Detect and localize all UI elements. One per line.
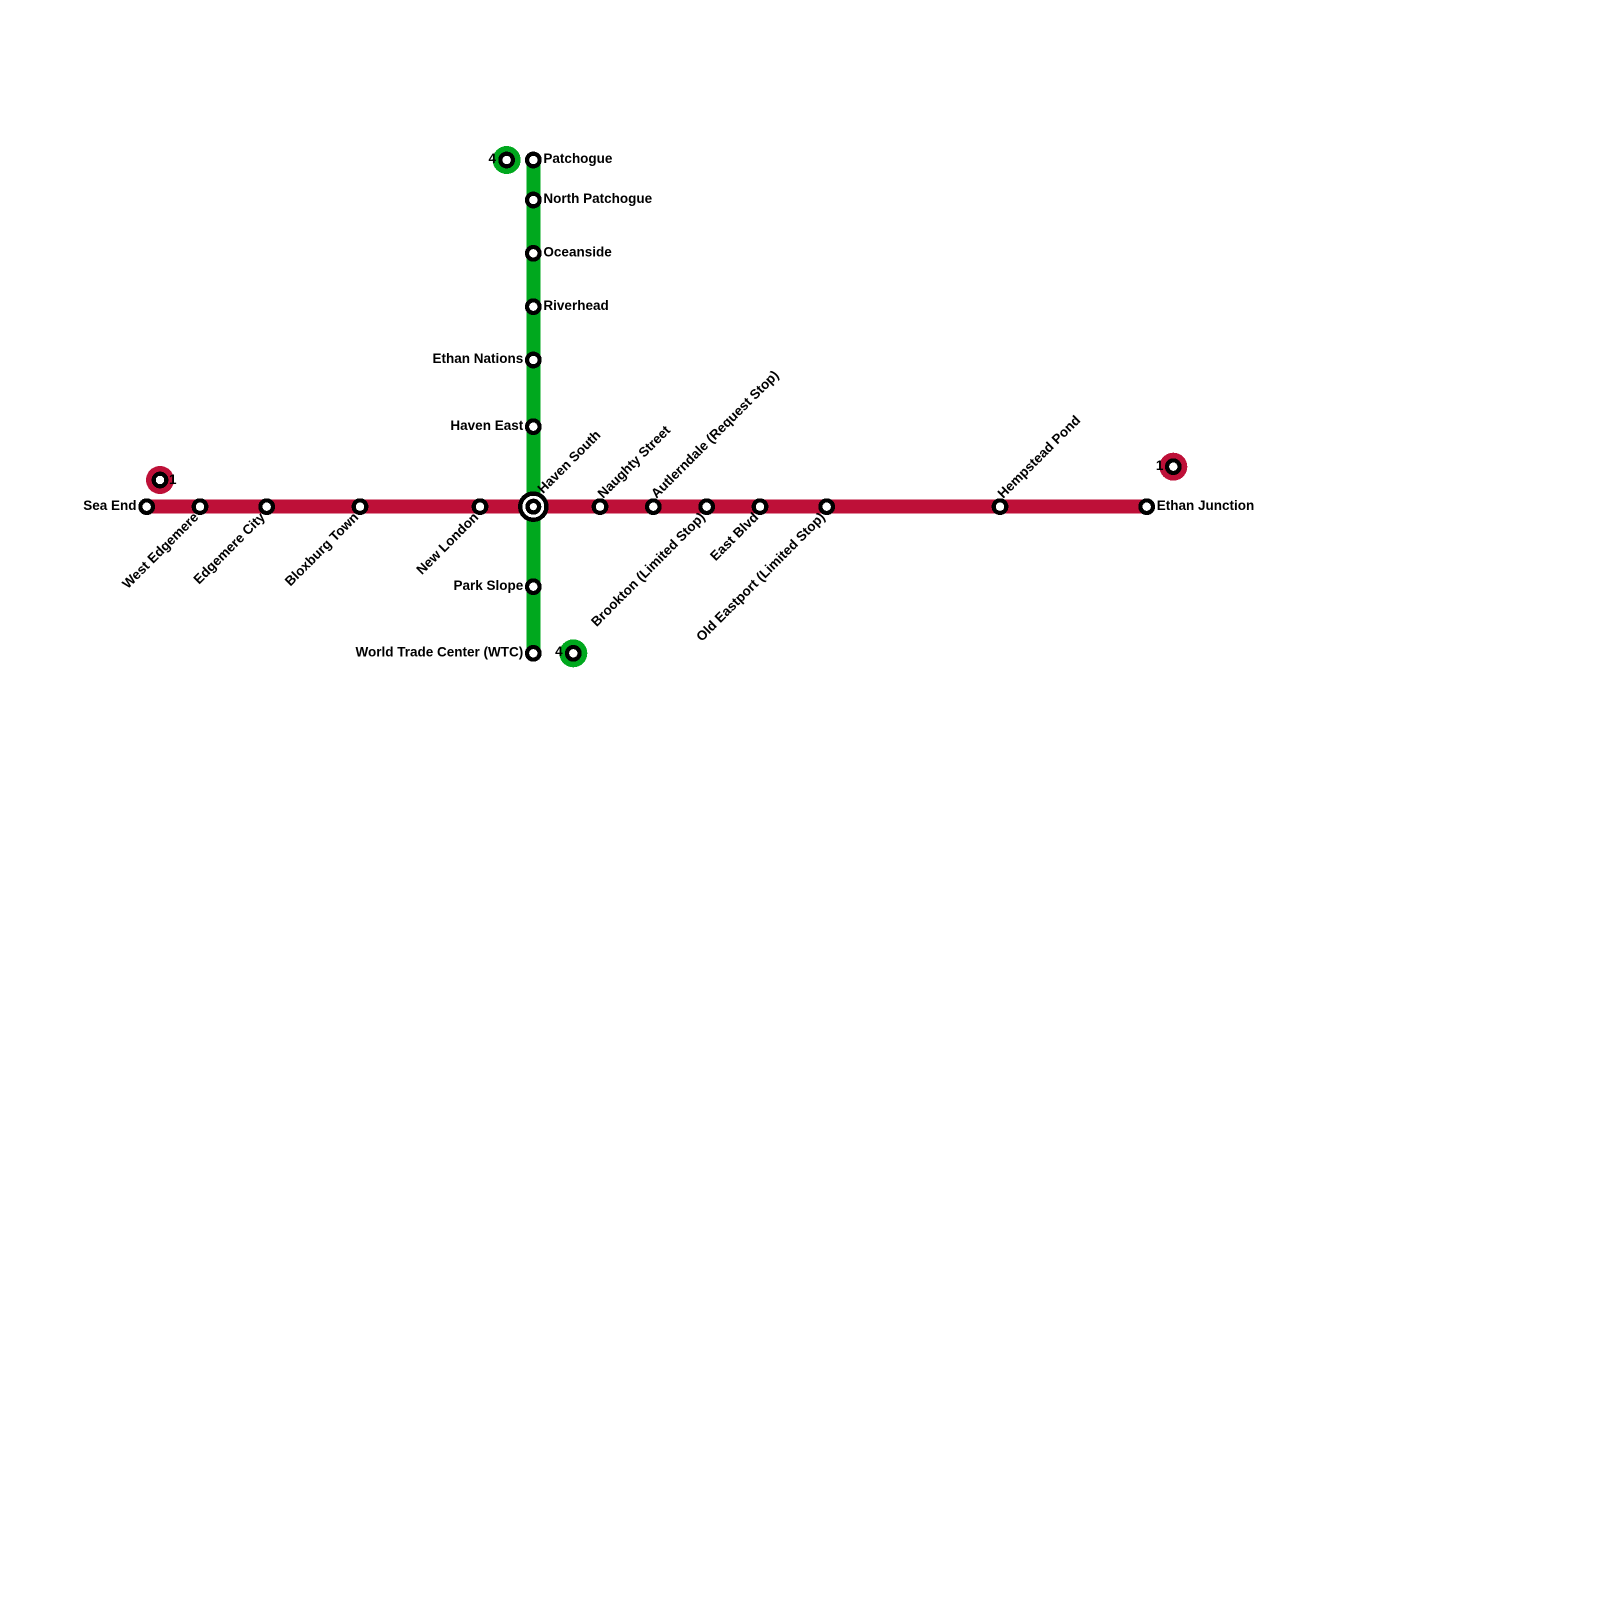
station Brookton (Limited Stop) (700, 500, 713, 513)
station Hempstead Pond (994, 500, 1007, 513)
svg-text:1: 1 (1156, 458, 1164, 473)
svg-text:Ethan Junction: Ethan Junction (1157, 498, 1255, 513)
station Naughty Street (594, 500, 607, 513)
station Sea End (140, 500, 153, 513)
svg-text:Riverhead: Riverhead (543, 298, 608, 313)
station Ethan Nations (527, 354, 540, 367)
station New London (474, 500, 487, 513)
green line 4: Patchogue to World Trade Center (526, 160, 540, 653)
station Ethan Junction (1140, 500, 1153, 513)
svg-text:Patchogue: Patchogue (543, 151, 613, 166)
station Park Slope (527, 580, 540, 593)
terminus badge green south (4) (559, 639, 587, 667)
station Haven East (527, 420, 540, 433)
station Oceanside (527, 247, 540, 260)
station Bloxburg Town (354, 500, 367, 513)
svg-text:Park Slope: Park Slope (453, 578, 523, 593)
station Old Eastport (Limited Stop) (820, 500, 833, 513)
interchange Haven South (520, 494, 546, 520)
terminus badge red west (1) (146, 466, 174, 494)
terminus badge green north (4) (493, 146, 521, 174)
red line 1: Sea End to Ethan Junction (147, 500, 1147, 514)
svg-text:Haven East: Haven East (450, 418, 523, 433)
station West Edgemere (194, 500, 207, 513)
svg-text:World Trade Center (WTC): World Trade Center (WTC) (355, 644, 523, 659)
terminus badge red east (1) (1159, 453, 1187, 481)
station East Blvd (754, 500, 767, 513)
svg-text:Oceanside: Oceanside (543, 244, 612, 259)
station North Patchogue (527, 194, 540, 207)
station Autlerndale (Request Stop) (647, 500, 660, 513)
station Patchogue (527, 154, 540, 167)
svg-text:Ethan Nations: Ethan Nations (432, 351, 523, 366)
svg-text:Sea End: Sea End (83, 498, 136, 513)
svg-text:1: 1 (169, 472, 177, 487)
station Riverhead (527, 300, 540, 313)
station World Trade Center (WTC) (527, 647, 540, 660)
svg-text:North Patchogue: North Patchogue (543, 191, 652, 206)
svg-text:4: 4 (488, 151, 496, 166)
svg-text:4: 4 (555, 644, 563, 659)
station Edgemere City (260, 500, 273, 513)
